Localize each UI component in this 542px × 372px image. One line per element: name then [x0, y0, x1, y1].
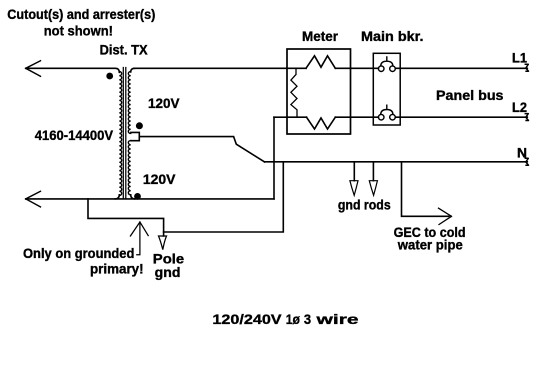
svg-text:primary!: primary! [90, 262, 144, 277]
N terminal squiggle [525, 158, 528, 165]
wire L2 riser to meter [274, 116, 287, 118]
meter current coil top zigzag [306, 56, 335, 69]
junction dot secondary bottom terminal [134, 193, 141, 200]
wire meter to breaker L2 [351, 116, 379, 118]
breaker pole 2 left contact circle [378, 114, 384, 120]
wire secondary top lead to meter (L1) [134, 67, 287, 69]
pole ground arrow (open triangle) [159, 236, 167, 250]
breaker pole 2 arc and tick [381, 105, 393, 114]
svg-text:Dist. TX: Dist. TX [100, 42, 148, 57]
wire L2 riser from bottom lead [273, 117, 275, 199]
svg-text:120V: 120V [143, 172, 176, 187]
arrowhead primary top lead (open, pointing left) [26, 61, 41, 77]
svg-text:1ø: 1ø [286, 312, 300, 328]
wire bottom lead with left arrow [26, 198, 274, 200]
breaker pole 1 right contact circle [390, 66, 396, 72]
junction dot primary top terminal [106, 73, 113, 80]
transformer T1 core line 2 [125, 68, 127, 199]
breaker pole 1 left contact circle [378, 66, 384, 72]
wire N bus [265, 161, 528, 163]
transformer secondary bottom corner [131, 195, 135, 199]
svg-text:Only on grounded: Only on grounded [23, 246, 134, 261]
transformer T1 secondary winding upper half [128, 72, 130, 134]
wire gnd rod 2 [372, 162, 374, 181]
L1 terminal squiggle [525, 64, 528, 71]
svg-text:Meter: Meter [302, 29, 339, 44]
main breaker box [373, 53, 400, 125]
wire gnd rod 1 [353, 162, 355, 181]
transformer T1 secondary winding lower half [128, 141, 130, 195]
gnd rod 1 arrow (open triangle) [350, 181, 358, 196]
meter L1 lead-out wire [335, 67, 350, 69]
svg-text:3: 3 [304, 312, 311, 328]
svg-text:4160-14400V: 4160-14400V [35, 128, 113, 143]
breaker pole 2 right contact circle [390, 114, 396, 120]
wire N bus to pole ground [164, 162, 284, 232]
meter L2 lead-in wire [287, 116, 307, 118]
wire center tap diagonal to N bus [139, 137, 264, 162]
wire primary ground drop [88, 199, 164, 236]
svg-text:Main bkr.: Main bkr. [361, 29, 424, 44]
transformer secondary top corner [131, 68, 135, 72]
breaker pole 1 arc and tick [381, 57, 393, 66]
svg-text:gnd rods: gnd rods [338, 197, 391, 212]
svg-text:water pipe: water pipe [397, 238, 463, 253]
center tap tab on secondary winding [131, 132, 139, 140]
meter voltage coil vertical zigzag [291, 68, 297, 117]
arrowhead GEC (open, pointing right) [439, 208, 452, 224]
transformer primary bottom corner [115, 195, 119, 199]
svg-text:gnd: gnd [155, 265, 181, 280]
junction dot secondary center tap [136, 122, 143, 129]
svg-text:N: N [517, 146, 527, 161]
svg-text:not shown!: not shown! [44, 23, 113, 38]
meter box M1 [287, 49, 351, 134]
svg-text:Cutout(s) and arrester(s): Cutout(s) and arrester(s) [7, 7, 155, 22]
svg-text:120V: 120V [148, 96, 180, 111]
transformer T1 core line 1 [122, 68, 124, 199]
L2 terminal squiggle [525, 114, 528, 121]
meter L2 lead-out wire [335, 116, 350, 118]
meter current coil bottom zigzag [307, 117, 336, 129]
wire breaker to L1 terminal [395, 67, 527, 69]
wire GEC drop and run [402, 162, 450, 216]
transformer T1 primary winding [119, 72, 121, 196]
arrow annotation only-on-grounded (up arrow with tick) [130, 222, 148, 255]
svg-text:120/240V: 120/240V [212, 312, 282, 328]
gnd rod 2 arrow (open triangle) [369, 181, 377, 196]
wire primary top lead [26, 68, 120, 72]
meter L1 lead-in wire [287, 67, 306, 69]
svg-text:Panel bus: Panel bus [436, 88, 504, 103]
svg-text:wire: wire [315, 312, 359, 328]
svg-text:L2: L2 [512, 100, 527, 115]
svg-text:L1: L1 [512, 51, 527, 66]
wire breaker to L2 terminal [395, 116, 527, 118]
arrowhead bottom lead (open, pointing left) [26, 191, 41, 207]
wire meter to breaker L1 [351, 67, 379, 69]
